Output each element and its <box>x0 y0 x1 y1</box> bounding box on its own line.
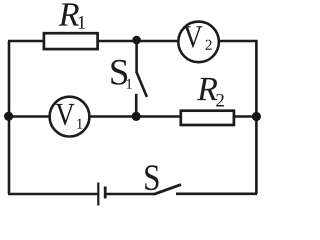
resistor R2 <box>181 111 234 125</box>
wire left vertical <box>8 41 11 194</box>
label V2 <box>183 26 202 47</box>
wire R2 to right junction <box>235 115 257 118</box>
wire V1 to S1 junction <box>90 115 137 118</box>
battery short plate <box>104 187 107 199</box>
label S (bottom switch) <box>145 165 158 190</box>
battery long plate <box>97 183 99 206</box>
label V1 <box>55 104 74 125</box>
switch S1 bottom segment <box>135 94 138 117</box>
resistor R1 <box>44 33 98 49</box>
voltmeter V2 circle <box>178 22 219 63</box>
wire bottom left to battery <box>8 193 98 196</box>
voltmeter V1 circle <box>50 97 90 137</box>
label S1 <box>111 60 127 85</box>
switch S1 blade <box>137 72 147 97</box>
wire V2 to top-right corner and right vertical <box>220 40 257 194</box>
junction node right <box>252 112 261 121</box>
wire top junction to V2 <box>136 40 179 43</box>
junction node S1 bottom <box>132 112 141 121</box>
wire R1 to top junction <box>98 40 137 43</box>
wire S1 junction to R2 <box>136 115 181 118</box>
label R1 <box>59 3 79 25</box>
junction node top (S1/V2 branch) <box>132 36 141 45</box>
wire battery to switch S <box>107 193 155 196</box>
junction node left <box>4 112 13 121</box>
wire top-left to R1 <box>8 40 45 43</box>
label R2 <box>197 78 217 100</box>
wire switch S to bottom-right corner <box>176 193 257 196</box>
switch S1 top segment <box>135 40 138 73</box>
switch S blade <box>154 185 181 195</box>
wire middle left to V1 <box>8 115 50 118</box>
